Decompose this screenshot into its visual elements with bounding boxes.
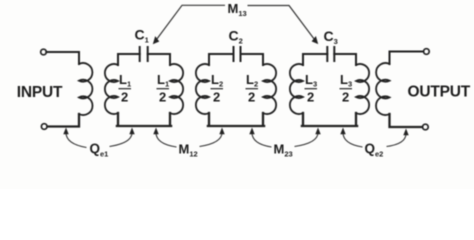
arrowhead Qe2 left <box>340 128 345 135</box>
inductor L2/2 right (bulge right) <box>263 64 276 114</box>
resonator 2 bottom wire <box>208 113 264 126</box>
inductor L3/2 right (bulge right) <box>356 64 369 114</box>
input top terminal <box>41 49 47 55</box>
wire Qe2 left arc <box>343 133 363 148</box>
svg-text:Qe2: Qe2 <box>365 141 384 158</box>
cross-coupling M13 pointer lines <box>157 5 315 39</box>
svg-text:INPUT: INPUT <box>17 84 63 101</box>
svg-text:C2: C2 <box>229 28 243 46</box>
svg-text:M23: M23 <box>274 142 293 159</box>
svg-text:L1: L1 <box>119 72 131 89</box>
svg-text:L3: L3 <box>340 72 352 89</box>
arrowhead M12 left <box>153 128 158 135</box>
label L3/2 right fraction <box>340 72 353 105</box>
svg-text:C3: C3 <box>324 28 338 46</box>
svg-text:2: 2 <box>307 90 314 105</box>
wire M12 left arc <box>156 133 177 148</box>
svg-text:M12: M12 <box>179 142 198 159</box>
capacitor C1 plates <box>140 47 148 61</box>
svg-text:Qe1: Qe1 <box>90 141 109 158</box>
label L1/2 right fraction <box>157 72 170 105</box>
wire M13 left pointer <box>157 5 226 39</box>
svg-text:L2: L2 <box>246 72 258 89</box>
arrowhead Qe1 right <box>129 128 134 135</box>
svg-text:L1: L1 <box>157 72 169 89</box>
svg-text:2: 2 <box>213 90 220 105</box>
capacitor C3 plates <box>327 47 334 61</box>
arrowhead Qe2 right <box>403 129 408 136</box>
label L2/2 right fraction <box>246 72 259 105</box>
svg-text:C1: C1 <box>135 27 149 45</box>
output top terminal <box>424 49 430 55</box>
svg-text:2: 2 <box>121 90 128 105</box>
arrowhead M13 right <box>312 36 319 44</box>
wire input bottom <box>47 114 79 127</box>
wire M23 right arc <box>295 133 319 147</box>
wire Qe1 right arc <box>110 133 133 147</box>
input bottom terminal <box>41 124 47 130</box>
wire Qe2 right arc <box>387 134 407 147</box>
label L3/2 left fraction <box>305 72 318 105</box>
label L1/2 left fraction <box>119 72 132 105</box>
wire M12 right arc <box>200 133 223 147</box>
svg-text:L3: L3 <box>305 72 317 89</box>
svg-text:2: 2 <box>159 90 166 105</box>
resonator 3 top wire <box>303 54 356 65</box>
inductor L1/2 right (bulge right) <box>170 64 183 114</box>
inductor L1/2 left (bulge left) <box>105 64 118 114</box>
wire Qe1 left arc <box>66 133 87 148</box>
arrowhead M23 right <box>315 128 320 135</box>
arrowhead M12 right <box>219 128 224 135</box>
resonator 1 top wire <box>118 54 170 65</box>
wire M13 right pointer <box>248 6 315 40</box>
capacitor C2 plates <box>234 47 241 61</box>
inductor input transformer primary <box>79 63 92 115</box>
output bottom terminal <box>423 124 429 130</box>
label L2/2 left fraction <box>211 72 224 105</box>
svg-text:OUTPUT: OUTPUT <box>408 84 471 101</box>
arrowhead M23 left <box>249 128 254 135</box>
resonator 3 bottom wire <box>302 113 357 126</box>
svg-text:2: 2 <box>248 90 255 105</box>
svg-text:L2: L2 <box>211 72 223 89</box>
resonator 1 bottom wire <box>117 113 171 126</box>
resonator 2 top wire <box>209 54 263 65</box>
arrowhead M13 left <box>153 36 160 44</box>
coupling arrows bottom <box>66 133 406 148</box>
inductor L3/2 left (bulge left) <box>290 64 303 114</box>
wire input top <box>46 52 79 64</box>
arrowhead Qe1 left <box>63 128 68 135</box>
wire M23 left arc <box>252 133 272 148</box>
wire output top <box>390 52 424 65</box>
svg-text:2: 2 <box>342 90 349 105</box>
svg-text:M13: M13 <box>228 1 247 18</box>
inductor output transformer secondary (bulge left) <box>376 63 389 115</box>
inductor L2/2 left (bulge left) <box>196 64 209 114</box>
wire output bottom <box>390 114 423 127</box>
